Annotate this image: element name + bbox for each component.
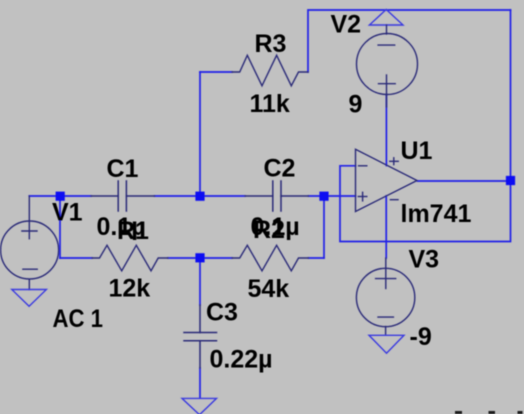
wire node up to R3 bbox=[199, 72, 201, 196]
svg-text:12k: 12k bbox=[109, 275, 151, 303]
node junction at C3 tap bbox=[195, 253, 204, 262]
svg-text:-9: -9 bbox=[410, 323, 432, 351]
capacitor C1 bbox=[91, 181, 155, 211]
ground below V3 bbox=[369, 335, 404, 353]
wire main input rail bbox=[29, 195, 355, 197]
wire R3 left lead horizontal bbox=[200, 71, 232, 73]
voltage source V3 bbox=[356, 258, 414, 335]
svg-text:lm741: lm741 bbox=[401, 200, 472, 228]
wire opamp V- pin to V3 top bbox=[385, 196, 387, 258]
node junction at opamp + input bbox=[319, 192, 328, 201]
wire top down to output node bbox=[510, 10, 512, 181]
svg-text:V3: V3 bbox=[409, 246, 440, 274]
voltage source V2 bbox=[357, 34, 418, 108]
voltage source V1 bbox=[1, 196, 59, 290]
capacitor C2 bbox=[245, 181, 309, 211]
node junction at R3 tap bbox=[195, 192, 204, 201]
wire R2 right up to opamp + node bbox=[323, 196, 325, 258]
resistor R3 bbox=[232, 55, 308, 86]
svg-text:11k: 11k bbox=[250, 90, 290, 118]
wire lower rail bbox=[60, 257, 324, 259]
wire C3 top lead bbox=[199, 258, 201, 305]
wire output node down and feedback to inverting input bbox=[340, 166, 511, 242]
svg-text:0.22µ: 0.22µ bbox=[210, 346, 273, 374]
wire V1 node down to lower rail bbox=[59, 196, 61, 258]
svg-text:C1: C1 bbox=[107, 155, 139, 183]
resistor R2 bbox=[232, 245, 309, 270]
node junction at output bbox=[506, 176, 515, 185]
svg-text:AC 1: AC 1 bbox=[53, 305, 104, 333]
svg-text:9: 9 bbox=[349, 91, 363, 119]
ground below V1 bbox=[12, 290, 47, 307]
node junction at V1 top bbox=[56, 192, 65, 201]
svg-text:R1: R1 bbox=[117, 217, 149, 245]
capacitor C3 bbox=[184, 305, 217, 368]
resistor R1 bbox=[92, 245, 168, 270]
ground flipped above V2 bbox=[369, 10, 403, 26]
cut-off text at bottom edge bbox=[455, 411, 523, 414]
svg-text:C2: C2 bbox=[264, 155, 296, 183]
wire R3 right to top bbox=[308, 10, 511, 72]
svg-text:V2: V2 bbox=[331, 11, 362, 39]
wire V2 bottom to opamp V+ pin bbox=[385, 95, 387, 166]
svg-text:V1: V1 bbox=[52, 199, 83, 227]
svg-text:R2: R2 bbox=[253, 216, 285, 244]
op-amp U1 bbox=[356, 149, 418, 211]
wire opamp output bbox=[418, 180, 511, 182]
svg-text:R3: R3 bbox=[255, 30, 287, 58]
wire C3 bottom lead to ground bbox=[199, 368, 201, 398]
ground below C3 bbox=[182, 398, 217, 414]
svg-text:C3: C3 bbox=[206, 299, 238, 327]
svg-text:U1: U1 bbox=[401, 137, 433, 165]
svg-text:54k: 54k bbox=[248, 275, 290, 303]
